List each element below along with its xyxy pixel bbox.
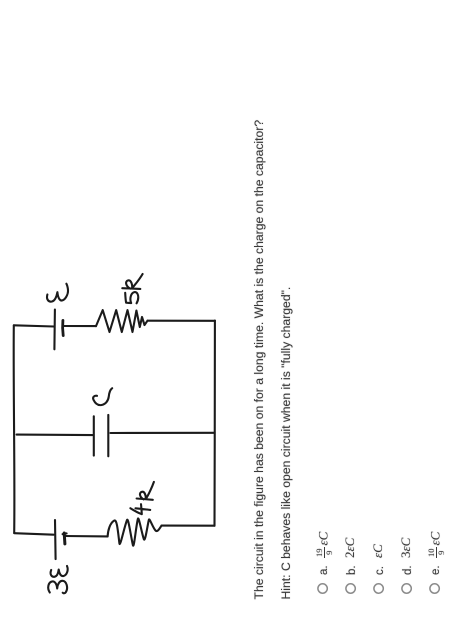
- wire: resistor R1 to bottom rail: [148, 320, 215, 322]
- battery B2 (ε) long plate: [53, 310, 56, 350]
- label C (capacitor): [93, 388, 112, 405]
- wire: capacitor branch upper: [17, 434, 93, 437]
- capacitor C upper plate: [93, 416, 95, 455]
- radio button option e: [430, 584, 439, 593]
- option d: [400, 374, 412, 594]
- battery B2 (ε) short plate: [61, 320, 64, 335]
- battery B1 (3ε) long plate: [54, 520, 57, 559]
- radio button option b: [346, 584, 355, 593]
- wire: right branch from top rail to battery B2: [14, 325, 54, 326]
- radio button option a: [318, 584, 327, 593]
- label 4R: digit 4: [130, 504, 150, 514]
- wire: battery B1 to resistor R2: [65, 535, 108, 538]
- option b: [344, 374, 356, 594]
- label ε (battery B2): [47, 284, 68, 302]
- radio button option c: [374, 584, 383, 593]
- wire: bottom rail: [213, 321, 215, 526]
- battery B1 tick: [63, 532, 67, 535]
- label 5R: digit 5: [125, 292, 138, 303]
- resistor R1 (5R) zigzag: [96, 310, 148, 332]
- question text: [252, 120, 266, 600]
- wire: resistor R2 to bottom rail: [162, 525, 215, 527]
- wire: top rail: [13, 325, 16, 533]
- wire: capacitor branch lower: [111, 432, 215, 434]
- resistor R2 (4R) zigzag: [108, 518, 162, 545]
- battery B1 (3ε) short plate: [63, 533, 67, 544]
- label 5R: letter R: [122, 274, 142, 289]
- option a: [316, 374, 328, 594]
- label 3ε: epsilon: [51, 566, 68, 577]
- option e: [428, 374, 440, 594]
- wire: battery B2 to resistor R1: [64, 325, 96, 327]
- option c: [372, 374, 384, 594]
- wire: left branch from top rail to battery B1: [14, 533, 53, 535]
- capacitor C lower plate: [107, 415, 109, 456]
- radio button option d: [402, 584, 411, 593]
- label 3ε: digit 3: [48, 581, 67, 594]
- label 4R: letter R: [137, 482, 154, 500]
